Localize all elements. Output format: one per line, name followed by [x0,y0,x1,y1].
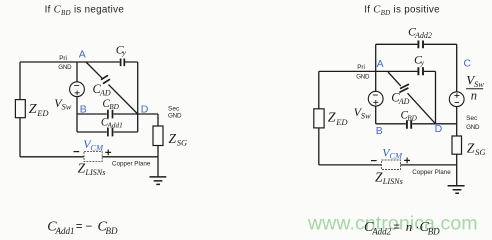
svg-text:Add2: Add2 [414,31,432,40]
svg-text:Sw: Sw [474,79,484,89]
svg-text:BD: BD [428,227,440,237]
svg-text:y: y [122,48,127,57]
svg-text:AD: AD [99,89,111,98]
svg-text:Add1: Add1 [55,226,75,236]
svg-text:LISNs: LISNs [84,168,105,177]
svg-text:n: n [471,89,477,103]
svg-text:GND: GND [466,124,480,131]
svg-text:Z: Z [29,102,37,117]
svg-text:BD: BD [106,226,118,236]
svg-text:Z: Z [467,141,475,156]
svg-text:BD: BD [109,103,119,111]
svg-text:If CBD is negative: If CBD is negative [45,4,125,17]
svg-text:Pri: Pri [59,55,67,62]
svg-text:Z: Z [169,131,177,146]
svg-text:n: n [406,219,413,234]
svg-text:Z: Z [78,161,86,176]
svg-text:SG: SG [475,147,485,157]
svg-text:If CBD is positive: If CBD is positive [364,4,440,17]
svg-text:=: = [393,221,400,233]
svg-text:B: B [80,103,87,115]
svg-text:= −: = − [76,221,93,233]
svg-text:GND: GND [58,64,72,71]
svg-text:Copper Plane: Copper Plane [412,169,451,176]
svg-text:y: y [420,58,425,67]
svg-text:GND: GND [168,112,182,119]
svg-text:D: D [435,123,443,135]
svg-text:Copper Plane: Copper Plane [112,161,151,168]
svg-text:Pri: Pri [357,64,365,71]
svg-text:Add2: Add2 [371,227,391,237]
svg-text:A: A [79,49,86,61]
svg-text:BD: BD [407,114,417,122]
svg-text:AD: AD [398,97,410,106]
svg-text:Z: Z [328,110,336,125]
svg-text:D: D [141,103,149,115]
svg-text:Sec: Sec [466,115,478,122]
svg-text:B: B [376,125,383,137]
svg-text:A: A [377,58,384,70]
svg-text:Sec: Sec [168,105,180,112]
svg-text:CM: CM [90,142,104,152]
svg-text:Add1: Add1 [107,122,123,130]
svg-text:Z: Z [375,169,383,184]
svg-text:Sw: Sw [361,110,371,120]
svg-text:Sw: Sw [62,102,72,112]
svg-text:GND: GND [356,73,370,80]
svg-text:CM: CM [389,151,403,161]
svg-text:ED: ED [36,108,49,118]
svg-text:ED: ED [335,117,348,127]
svg-text:C: C [464,58,472,70]
svg-text:LISNs: LISNs [382,177,403,186]
svg-text:SG: SG [177,137,187,147]
